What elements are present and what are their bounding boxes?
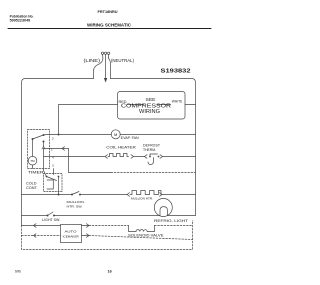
svg-text:M: M bbox=[114, 132, 117, 137]
svg-text:DEFROST: DEFROST bbox=[143, 144, 160, 148]
svg-text:COLD: COLD bbox=[26, 182, 37, 186]
svg-text:TIMER: TIMER bbox=[28, 171, 44, 175]
svg-text:MULLION: MULLION bbox=[67, 200, 85, 204]
svg-text:SOLENOID VALVE: SOLENOID VALVE bbox=[128, 234, 164, 238]
svg-text:(LINE): (LINE) bbox=[84, 58, 101, 63]
svg-text:WIRING: WIRING bbox=[139, 109, 160, 115]
svg-text:ICEMAKER: ICEMAKER bbox=[63, 234, 80, 238]
svg-text:WHITE: WHITE bbox=[172, 99, 183, 103]
svg-text:CONT.: CONT. bbox=[26, 186, 38, 190]
svg-text:5995223049: 5995223049 bbox=[10, 19, 31, 23]
svg-text:WIRING SCHEMATIC: WIRING SCHEMATIC bbox=[87, 23, 131, 29]
svg-text:AUTO: AUTO bbox=[65, 230, 78, 234]
svg-text:S193832: S193832 bbox=[161, 69, 191, 75]
svg-text:SEE: SEE bbox=[146, 97, 156, 102]
svg-text:LIGHT SW.: LIGHT SW. bbox=[42, 218, 60, 222]
svg-text:6/96: 6/96 bbox=[15, 270, 21, 274]
svg-text:16: 16 bbox=[108, 270, 112, 274]
svg-text:TM: TM bbox=[30, 159, 35, 163]
svg-text:(NEUTRAL): (NEUTRAL) bbox=[111, 58, 135, 63]
svg-text:THERM.: THERM. bbox=[143, 148, 156, 152]
svg-text:EVAP. FAN: EVAP. FAN bbox=[121, 136, 140, 140]
svg-text:FRT18NRU: FRT18NRU bbox=[98, 9, 118, 14]
svg-text:MULLION HTR.: MULLION HTR. bbox=[131, 196, 153, 200]
svg-text:REFRIG. LIGHT: REFRIG. LIGHT bbox=[154, 219, 188, 223]
svg-text:HTR. SW.: HTR. SW. bbox=[67, 204, 83, 208]
svg-text:COIL HEATER: COIL HEATER bbox=[106, 146, 136, 150]
